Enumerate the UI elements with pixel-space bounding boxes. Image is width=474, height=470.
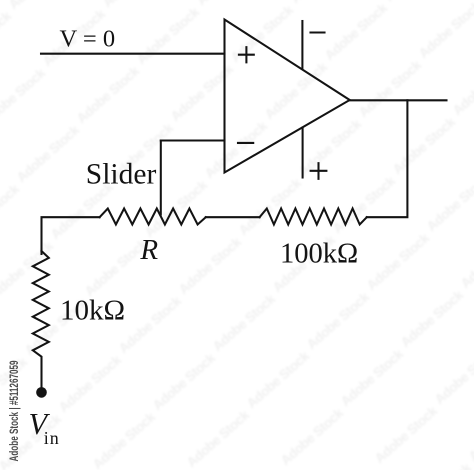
potentiometer R zigzag (100, 209, 206, 225)
wire V=0 to + input (41, 53, 225, 55)
svg-text:100kΩ: 100kΩ (280, 239, 358, 270)
power rail top (301, 21, 303, 69)
node Vin terminal dot (36, 387, 47, 398)
power rail bottom plus label (311, 163, 327, 179)
wire R to 100k (206, 216, 260, 218)
wire 100k to output branch (367, 100, 408, 217)
output wire (350, 99, 447, 101)
power rail top minus label (311, 31, 325, 33)
svg-text:V = 0: V = 0 (60, 26, 116, 53)
resistor 100k zigzag (260, 209, 367, 225)
op-amp + input label (239, 47, 254, 62)
wire left rail to node A (42, 217, 100, 254)
svg-text:in: in (44, 428, 59, 448)
svg-text:Slider: Slider (86, 159, 157, 191)
svg-text:Adobe Stock | #511267059: Adobe Stock | #511267059 (7, 360, 21, 461)
svg-text:10kΩ: 10kΩ (60, 294, 125, 326)
feedback wire to - input (161, 139, 225, 141)
resistor 10k vertical zigzag (33, 251, 49, 390)
op-amp U1 (225, 20, 350, 173)
slider tap wire (160, 141, 162, 215)
op-amp - input label (238, 142, 253, 144)
power rail bottom (302, 128, 304, 178)
svg-text:R: R (139, 234, 158, 266)
